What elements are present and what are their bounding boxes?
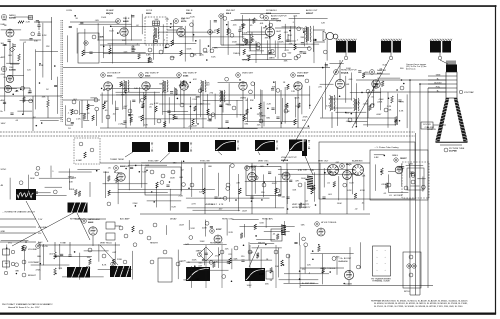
resistor R30 [87,104,90,110]
svg-text:12K: 12K [321,23,325,25]
svg-text:10K: 10K [134,88,138,90]
part left mid wiring0 [71,121,74,123]
part mid gap wiring2 [210,225,213,227]
part tuner wiring0 [54,84,57,86]
svg-text:22K: 22K [225,249,229,251]
part video IF wiring29 [198,89,202,93]
resistor R3 [18,21,24,24]
svg-text:22K: 22K [214,262,218,264]
labels horiz out wiring [318,64,404,123]
tube V17 HORIZ OUTPUT 6DQ6A [334,70,339,75]
transformer T3 IF coil [123,80,126,92]
svg-text:150K: 150K [98,36,104,38]
wire group sound strip wiring [68,13,328,63]
part bottom mid wiring7 [299,278,301,280]
tube V9 [177,28,185,36]
svg-text:39K: 39K [116,173,120,175]
svg-text:12K: 12K [258,269,262,271]
part audio wiring5 [242,38,246,42]
svg-text:56K: 56K [265,284,269,286]
part horiz out wiring10 [370,104,374,108]
svg-text:.0047: .0047 [242,211,248,213]
svg-text:4.5MC: 4.5MC [76,160,83,162]
wire group hv cage wiring [374,155,426,193]
svg-text:8.2K: 8.2K [347,190,352,192]
part controls wiring9 [133,243,137,247]
resistor R21 [227,28,230,35]
HV transformer terminal guide box [373,246,391,276]
svg-text:HORIZ. LINEARITY: HORIZ. LINEARITY [292,206,311,209]
wire group video IF wiring [102,78,310,130]
wire group audio wiring [234,20,313,60]
agc parts [119,226,123,230]
svg-text:.0047: .0047 [271,183,277,185]
part horiz out wiring15 [403,83,405,85]
svg-text:SYNC SEP: SYNC SEP [148,161,159,163]
svg-text:1MEG: 1MEG [233,53,239,55]
yoke pointer lines [283,60,343,162]
tube V6 1st SOUND IF 6AU6 [116,19,121,24]
pointer D4 [249,245,259,267]
svg-text:150K: 150K [170,177,176,179]
svg-text:←: ← [376,249,378,252]
svg-text:6AW8A: 6AW8A [297,75,305,78]
svg-text:SYNC INV: SYNC INV [200,161,210,163]
svg-text:5U4GB: 5U4GB [345,284,352,286]
svg-text:3.3K: 3.3K [259,222,264,224]
svg-text:39K: 39K [250,100,254,102]
deflection yoke section L10 [336,39,337,41]
transformer T2 audio output [305,26,308,42]
svg-text:SYNC: SYNC [1,169,7,171]
svg-text:470K: 470K [69,189,75,191]
part hv cage wiring2 [385,183,388,189]
part left mid wiring2 [92,115,95,121]
wire verticals lowleft [39,242,41,280]
svg-text:GRN: GRN [436,74,441,76]
svg-text:→: → [384,249,386,252]
svg-text:4.7K: 4.7K [284,105,289,107]
part sync band wiring25 [107,202,111,206]
part sound strip wiring4 [80,21,83,23]
svg-text:HORIZ HOLD: HORIZ HOLD [210,243,223,245]
svg-text:33K: 33K [284,61,288,63]
deflection yoke section L12 [430,39,431,41]
part sync band wiring6 [135,165,137,167]
tube V4 mixer [6,75,13,82]
svg-text:150K: 150K [232,42,238,44]
tube V29 HI RECT [315,222,320,227]
svg-text:8.2K: 8.2K [229,232,234,234]
bottom tubes row [220,250,224,254]
svg-text:4.7K: 4.7K [207,120,212,122]
svg-text:6.8K: 6.8K [2,19,7,21]
HV cage box [370,150,428,200]
svg-text:6.8K: 6.8K [154,103,159,105]
part tuner wiring3 [29,99,33,103]
part video IF wiring28 [125,92,127,94]
svg-text:VIDEO AMP: VIDEO AMP [297,72,309,75]
part horiz out wiring0 [358,70,361,72]
part tuner wiring7 [31,32,35,36]
part horiz out wiring9 [373,85,376,87]
svg-text:.0047: .0047 [374,84,380,86]
part tuner wiring6 [23,97,26,103]
capacitor C40 [398,99,401,101]
wire sync bus [100,162,370,164]
svg-text:AGC: AGC [1,99,6,102]
picture tube funnel left side [435,98,449,142]
capacitor C2 [37,24,40,26]
svg-text:6.8K: 6.8K [408,163,413,165]
svg-text:LEAKAGE: LEAKAGE [338,260,348,263]
svg-text:10K: 10K [292,190,296,192]
part mid gap wiring3 [255,235,257,237]
part hv cage wiring1 [384,155,386,157]
capacitor C14 [154,39,157,41]
svg-text:12K: 12K [193,54,197,56]
part video IF wiring11 [305,79,309,83]
part video IF wiring24 [251,82,255,86]
part sync band wiring7 [182,183,186,187]
svg-text:100K: 100K [247,285,253,287]
svg-text:22K: 22K [259,112,263,114]
part sound strip wiring2 [138,54,141,60]
part sync band wiring12 [115,177,118,183]
part left lower wiring4 [74,190,77,196]
svg-text:1B3GT: 1B3GT [400,158,407,160]
crt lead boxes dashed [402,162,429,198]
left label rows [0,218,36,220]
labels tuner wiring [2,18,50,122]
wire left mid horiz [0,95,62,97]
svg-text:470K: 470K [241,24,247,26]
svg-text:10K: 10K [209,204,213,206]
part video IF wiring12 [128,113,131,115]
coil adj circle [154,40,158,44]
svg-text:8.2K: 8.2K [190,16,195,18]
svg-text:39K: 39K [2,45,6,47]
svg-text:KEYED AGC: KEYED AGC [70,218,83,221]
wire B+ bus [63,67,330,69]
controls cluster [22,247,26,251]
svg-text:100K: 100K [294,97,300,99]
part video IF wiring7 [130,117,133,123]
labels video IF wiring [104,79,308,128]
svg-text:3.3K: 3.3K [399,110,404,112]
switch boxes left edge [3,249,10,255]
svg-text:6AT6B: 6AT6B [9,69,16,72]
svg-text:100K: 100K [346,68,352,70]
svg-text:AGC AMP: AGC AMP [120,218,130,221]
speaker SP1 [326,32,333,39]
part left mid wiring4 [67,118,71,122]
tube V3 6AT6B [1,66,6,71]
part video IF wiring20 [287,84,290,90]
resistor R50 [54,252,57,259]
part sound strip wiring6 [297,54,301,58]
part mid gap wiring4 [302,237,306,241]
transformer T5 IF coil [200,80,203,92]
part sync band wiring0 [130,166,133,168]
labels audio wiring [241,22,295,58]
capacitor C50 [68,254,71,256]
svg-text:47K: 47K [295,181,299,183]
part sync band wiring15 [268,171,271,173]
part audio wiring6 [269,52,271,54]
waveform photo W1 [16,189,36,200]
resistor R16 [171,40,174,46]
svg-text:→: → [384,262,386,265]
wire lv [300,267,344,269]
part tuner wiring2 [8,39,11,41]
svg-text:8.2K: 8.2K [172,206,177,208]
svg-text:AGC: AGC [38,241,43,244]
part controls wiring8 [111,262,115,266]
svg-text:RADIO: RADIO [9,14,16,17]
part tuner wiring8 [3,43,6,45]
part left lower wiring7 [19,181,23,185]
smallparts [148,48,152,52]
svg-text:VOLUME: VOLUME [38,227,47,229]
svg-text:2.2K: 2.2K [179,195,184,197]
tube V1 RADIO 6AT6B [1,14,6,19]
part video IF wiring21 [211,113,215,117]
svg-text:Howard W. Sams & Co., Inc. 19: Howard W. Sams & Co., Inc. 1957 [8,306,40,309]
svg-text:6.8K: 6.8K [39,65,44,67]
part sound strip wiring30 [303,51,306,53]
agc boxes [106,222,115,229]
wire left low horiz [0,117,62,119]
part video IF wiring8 [271,88,274,90]
part mid gap wiring0 [276,234,279,240]
svg-text:TERMINAL GUIDE: TERMINAL GUIDE [372,280,390,283]
svg-text:.0047: .0047 [276,31,282,33]
part sound strip wiring29 [117,32,119,34]
focus label box [421,122,433,129]
svg-text:1MEG: 1MEG [392,155,398,157]
box 4.5mc dashed [145,17,167,45]
trimmer cap [153,21,160,26]
svg-text:←: ← [376,256,378,259]
part bottom mid wiring8 [283,264,285,266]
part sync band wiring11 [223,196,227,200]
part sound strip wiring11 [148,57,151,63]
box yoke enclosure [319,142,415,199]
peaking coil L5 [72,100,76,104]
wire sync low bus [140,213,370,215]
tube V18 [335,79,344,88]
part video IF wiring0 [276,89,280,93]
svg-text:SL P1051, SL P2181, SL P2281,: SL P1051, SL P2181, SL P2281, SL W1081, … [374,306,463,308]
part hv cage wiring0 [401,166,404,168]
part bottom mid wiring16 [265,244,267,246]
labels left mid wiring [68,99,91,130]
svg-text:33K: 33K [190,271,194,273]
part mid gap wiring7 [189,236,193,240]
wire tuner vert [51,17,53,80]
part sound strip wiring12 [208,45,210,47]
svg-text:33K: 33K [87,257,91,259]
part bottom mid wiring13 [222,275,226,279]
smallparts horiz [348,118,352,122]
svg-text:10K: 10K [145,165,149,167]
svg-text:6AU6: 6AU6 [186,12,192,15]
svg-text:470K: 470K [259,274,265,276]
transformer T7 horiz output flyback [329,95,332,111]
svg-text:39K: 39K [265,37,269,39]
part horiz out wiring6 [366,89,370,93]
wire [247,31,265,33]
svg-text:47K: 47K [251,39,255,41]
svg-text:1MEG: 1MEG [68,177,74,179]
svg-text:39K: 39K [263,28,267,30]
svg-text:TONE: TONE [60,243,66,245]
part bottom mid wiring17 [202,259,204,261]
part sync band wiring13 [289,179,292,181]
svg-text:VIDEO DET: VIDEO DET [242,73,254,75]
phase det diamond [199,247,213,261]
pointer lines B [125,152,133,157]
labels mid gap wiring [179,222,305,246]
part video IF wiring16 [173,114,176,120]
svg-text:HORIZ AFC: HORIZ AFC [262,218,274,221]
part sync band wiring5 [107,176,110,182]
svg-text:HV 20KV: HV 20KV [394,195,403,197]
wire group sync band wiring [103,160,364,211]
svg-text:6AU6: 6AU6 [145,75,151,78]
wire group left lower wiring [10,166,100,200]
part video IF wiring3 [183,81,187,85]
part bottom mid wiring5 [304,243,308,247]
tube V27 2D-7B [36,244,41,249]
svg-text:4.7K: 4.7K [284,50,289,52]
sync small parts [190,183,194,187]
part sync band wiring21 [343,183,347,187]
svg-text:10K: 10K [272,87,276,89]
part sync band wiring9 [231,164,235,168]
part sound strip wiring0 [253,18,256,24]
wire bottom verticals [205,245,207,288]
part sync band wiring16 [267,164,269,166]
svg-text:47K: 47K [236,182,240,184]
part tuner wiring13 [12,94,14,96]
svg-text:22K: 22K [165,19,169,21]
tuner shield dashed bar [60,20,62,122]
tube V23 vert out [340,164,345,169]
svg-text:4.7K: 4.7K [326,105,331,107]
svg-text:33K: 33K [34,41,38,43]
svg-text:150K: 150K [295,106,301,108]
part controls wiring4 [112,259,115,265]
IF vertical wires [107,90,109,128]
wire HV lead [339,60,341,79]
waveform photo D1 [67,267,90,278]
svg-text:150K: 150K [242,33,248,35]
svg-text:FOCUS: FOCUS [423,124,431,126]
resistor R10 [82,50,85,56]
part video IF wiring14 [103,89,105,91]
tube V13 2ND VIDEO IF 6AU6 [139,73,144,78]
part sync band wiring3 [151,191,153,193]
part horiz out wiring14 [362,73,365,79]
svg-text:6CB6: 6CB6 [183,76,189,78]
pointer W2 [77,213,90,240]
svg-text:56K: 56K [234,258,238,260]
svg-text:150K: 150K [101,17,107,19]
part controls wiring7 [123,260,127,264]
resistor R51 [54,268,57,275]
part left lower wiring0 [96,170,98,172]
mid band vertical box [271,229,282,241]
svg-text:47K: 47K [132,49,136,51]
capacitor C22 [286,39,289,41]
svg-text:39K: 39K [15,271,19,273]
part video IF wiring1 [175,90,178,96]
part left mid wiring5 [71,109,74,115]
svg-text:33K: 33K [42,97,46,99]
wire IF strip bus [100,94,310,96]
part audio wiring1 [269,23,273,27]
svg-text:OSC: OSC [1,74,6,76]
wire [167,29,177,31]
svg-text:470K: 470K [397,167,403,169]
svg-text:VERT OSC: VERT OSC [258,161,269,163]
mixer X1 [29,16,33,20]
svg-text:DELAY: DELAY [170,218,177,221]
svg-text:VERT HOLD: VERT HOLD [100,243,112,245]
wire IF ground bus [100,127,310,129]
box sound take-off [78,33,99,63]
svg-text:6.8K: 6.8K [374,157,379,159]
svg-text:6.8K: 6.8K [285,111,290,113]
part controls wiring0 [23,245,27,249]
svg-text:47K: 47K [145,87,149,89]
svg-text:1MEG: 1MEG [196,250,202,252]
svg-text:12K: 12K [46,46,50,48]
tube V22 vert osc 6AC7 [245,166,250,171]
HV rect tube V24 1B3GT [394,158,398,162]
svg-text:6.8K: 6.8K [129,115,134,117]
capacitor C10 [89,51,92,53]
part audio wiring2 [278,34,281,40]
part horiz out wiring12 [394,117,397,123]
long diagonal pointer [12,212,75,246]
svg-text:HOFFMAN MODELS 8119, SL M1031,: HOFFMAN MODELS 8119, SL M1031, SL M1131,… [371,300,468,303]
crt lead bends [356,79,446,81]
part left lower wiring6 [35,172,39,176]
part bottom mid wiring1 [270,268,273,274]
resistor R12 [109,48,112,54]
part sync band wiring19 [235,199,237,201]
border top [0,5,497,7]
part sound strip wiring5 [214,20,217,22]
part mid gap wiring1 [254,224,257,230]
svg-text:12K: 12K [291,91,295,93]
svg-text:2.2K: 2.2K [267,104,272,106]
part audio wiring7 [243,49,246,55]
svg-text:6W6GT: 6W6GT [306,13,314,15]
part sound strip wiring22 [260,14,264,18]
svg-text:6DQ6A: 6DQ6A [341,72,349,75]
smallparts lowleft [88,248,92,252]
funnel hatch left [445,99,450,101]
svg-text:PHOTOFACT STANDARD NOTATION SC: PHOTOFACT STANDARD NOTATION SCHEMATIC [2,303,53,306]
tube V30 AGC keyer [4,85,11,92]
svg-text:→ 5. Picture Tube Coating: → 5. Picture Tube Coating [374,146,399,149]
part tuner wiring9 [36,20,39,22]
part bottom mid wiring11 [209,261,213,265]
